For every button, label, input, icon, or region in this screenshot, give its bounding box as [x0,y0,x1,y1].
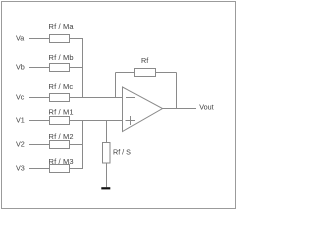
wire V1 to op-amp non-inverting input [70,120,123,122]
resistor Rf/Ma [49,22,75,43]
svg-text:V1: V1 [16,116,25,125]
wire output [163,108,197,110]
wire Rf/S tap vertical [106,121,108,143]
border frame [2,2,236,209]
wire bus Va Vb Vc vertical [82,39,84,98]
svg-text:Rf / Mb: Rf / Mb [49,53,74,62]
svg-text:Rf / Ma: Rf / Ma [49,22,75,31]
svg-text:Va: Va [16,34,24,43]
wire Vb input [29,67,50,69]
resistor Rf/S [103,143,132,164]
wire V3 input [29,168,50,170]
resistor Rf/M1 [49,108,74,125]
node V1 [16,116,25,125]
wire V1 input [29,120,50,122]
wire Vc to op-amp inverting input [70,97,123,99]
wire Va input [29,38,50,40]
wire feedback down to output [176,73,178,109]
resistor Rf/Mb [49,53,74,72]
wire feedback tap vertical [115,73,117,98]
resistor Rf/Mc [49,82,74,102]
wire Va to bus [70,38,84,40]
svg-text:Rf / S: Rf / S [113,148,131,157]
wire feedback top left [116,72,135,74]
svg-text:Vc: Vc [16,93,25,102]
node Vb [16,63,25,72]
node V3 [16,164,25,173]
wire Vc input [29,97,50,99]
wire Rf/S to ground [106,163,108,187]
op-amp U1 [123,87,163,132]
resistor Rf/M2 [49,132,74,149]
node Vout [199,103,213,112]
svg-text:V2: V2 [16,140,25,149]
svg-text:Vb: Vb [16,63,25,72]
node Vc [16,93,25,102]
svg-text:Rf / M3: Rf / M3 [49,157,74,166]
wire V3 to bus [70,168,84,170]
svg-text:V3: V3 [16,164,25,173]
resistor Rf/M3 [49,157,74,173]
ground [101,187,110,189]
svg-text:Rf: Rf [141,56,148,65]
svg-text:Rf / Mc: Rf / Mc [49,82,74,91]
node V2 [16,140,25,149]
wire V2 input [29,144,50,146]
node Va [16,34,24,43]
wire V2 to bus [70,144,84,146]
svg-text:Rf / M1: Rf / M1 [49,108,74,117]
svg-text:Vout: Vout [199,103,213,112]
resistor Rf feedback [135,56,156,77]
wire Vb to bus [70,67,84,69]
svg-text:Rf / M2: Rf / M2 [49,132,74,141]
wire feedback top right [156,72,177,74]
wire bus V1 V2 V3 vertical [82,121,84,169]
